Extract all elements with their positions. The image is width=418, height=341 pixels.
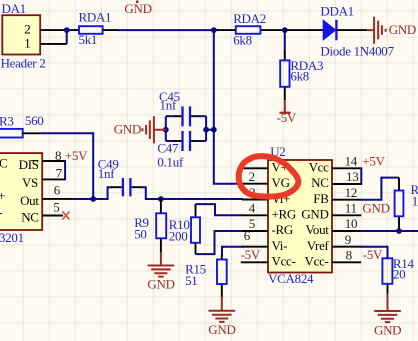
svg-text:RDA1: RDA1	[79, 9, 112, 24]
svg-text:+5V: +5V	[362, 154, 385, 169]
pin 7 of U2	[241, 261, 268, 263]
power port GND (below R14)	[374, 294, 401, 338]
svg-text:VCA824: VCA824	[268, 271, 314, 286]
resistor R13 (feedback, clipped labels)	[395, 178, 418, 231]
pin 13 of U2	[332, 183, 361, 185]
resistor R9 50	[134, 199, 166, 253]
wire cap right vertical	[205, 116, 207, 141]
svg-text:6: 6	[244, 228, 251, 243]
capacitor C49 1nf	[93, 156, 161, 199]
op-amp U2 VCA824	[268, 144, 332, 286]
pin 5 (NC) of U1	[42, 215, 63, 217]
svg-text:5k1: 5k1	[79, 32, 98, 47]
svg-text:C47: C47	[157, 141, 179, 156]
svg-text:-5V: -5V	[241, 247, 261, 262]
svg-text:NC: NC	[21, 209, 38, 224]
pin 4 of U2	[242, 214, 268, 216]
svg-text:11: 11	[345, 201, 357, 216]
svg-text:Vcc: Vcc	[309, 159, 330, 174]
svg-text:-5V: -5V	[277, 110, 297, 125]
power port GND (below R9)	[147, 252, 174, 292]
svg-text:VG: VG	[272, 175, 290, 190]
svg-text:GND: GND	[147, 277, 174, 292]
pin 1 of U2	[243, 167, 269, 169]
svg-text:GND: GND	[114, 122, 141, 137]
svg-text:GND: GND	[301, 206, 328, 221]
pin 9 (Vref) of U2	[332, 246, 361, 248]
svg-text:560: 560	[25, 113, 44, 128]
svg-text:Header 2: Header 2	[1, 55, 46, 70]
svg-text:Vref: Vref	[307, 238, 330, 253]
power port GND (right of diode)	[367, 17, 416, 44]
svg-text:C: C	[0, 156, 7, 171]
svg-text:1nf: 1nf	[160, 98, 177, 113]
op-amp U1 (x3201, clipped at left edge)	[0, 153, 42, 245]
wire Vref to R14	[360, 247, 388, 259]
no-ERC cross on pin 5	[63, 212, 70, 220]
pin 3 of U2	[242, 199, 268, 201]
resistor RDA3 6k8	[280, 30, 323, 100]
svg-text:DDA1: DDA1	[320, 4, 353, 19]
pin 8 of U2	[332, 261, 361, 263]
resistor R14 20	[382, 256, 414, 295]
wire to U2 pin 3	[161, 198, 243, 200]
svg-text:12: 12	[345, 185, 357, 200]
svg-text:DA1: DA1	[2, 1, 26, 16]
svg-text:-RG: -RG	[272, 222, 294, 237]
svg-text:VS: VS	[22, 175, 38, 190]
power port GND (left of caps)	[114, 116, 166, 143]
pin 1 of DA1	[40, 43, 66, 45]
svg-text:Vi-: Vi-	[272, 238, 288, 253]
resistor R15 51	[185, 247, 243, 298]
capacitor C45 1nf	[159, 89, 206, 127]
wire R10 top to U2 pin 4	[196, 204, 244, 215]
wire Out to junction	[71, 198, 93, 200]
junction caps right	[203, 127, 209, 133]
svg-text:9: 9	[345, 232, 351, 247]
junction C49/R9/pin3 net	[158, 196, 164, 202]
svg-text:Vcc-: Vcc-	[272, 253, 296, 268]
wire pin1 to pin2 net	[66, 30, 68, 44]
resistor R3 560	[0, 113, 44, 138]
junction of RDA1/RDA2/VG-vertical	[211, 27, 217, 33]
resistor RDA2 6k8	[214, 11, 285, 47]
svg-text:14: 14	[345, 154, 358, 169]
wire RDA1 to junction	[118, 29, 214, 31]
svg-text:7: 7	[56, 166, 63, 181]
svg-text:1k: 1k	[412, 194, 418, 209]
svg-text:0.1uf: 0.1uf	[157, 154, 184, 169]
pin 5 of U2	[242, 230, 268, 232]
diode DDA1 1N4007	[285, 4, 395, 59]
svg-text:+RG: +RG	[272, 206, 297, 221]
svg-text:6k8: 6k8	[233, 32, 252, 47]
wire loop pin14-pin13	[360, 167, 362, 185]
svg-text:GND: GND	[374, 322, 401, 337]
junction caps left	[163, 127, 169, 133]
power port GND (below R15)	[208, 297, 235, 337]
svg-text:Vcc-: Vcc-	[305, 253, 329, 268]
wire Vout net	[360, 230, 418, 232]
svg-text:200: 200	[169, 229, 188, 244]
svg-text:20: 20	[393, 266, 405, 281]
pin 11 of U2	[332, 214, 361, 216]
svg-text:8: 8	[346, 248, 352, 263]
svg-text:10: 10	[345, 216, 357, 231]
svg-text:GND: GND	[389, 22, 416, 37]
junction caps to VG vertical	[211, 127, 217, 133]
pin 14 of U2	[332, 167, 361, 169]
junction at DA1 pins	[64, 27, 70, 33]
resistor R10 200	[169, 204, 200, 254]
svg-text:Diode 1N4007: Diode 1N4007	[320, 43, 394, 58]
capacitor C47 0.1uf	[157, 131, 206, 169]
wire R10 bottom to U2 pin 5	[196, 231, 244, 254]
svg-text:1nf: 1nf	[98, 166, 115, 181]
pin 7 of U1	[42, 178, 65, 180]
svg-text:8: 8	[55, 148, 61, 163]
connector DA1 (Header 2)	[1, 1, 46, 70]
svg-text:NC: NC	[311, 175, 328, 190]
svg-text:+5V: +5V	[65, 148, 88, 163]
svg-text:R3: R3	[0, 113, 14, 128]
wire VG vertical (RDA junction down to U2 pin 2)	[214, 30, 243, 184]
svg-text:GND: GND	[208, 322, 235, 337]
svg-text:DIS: DIS	[19, 157, 39, 172]
pin 6 (Out) of U1	[42, 198, 72, 200]
svg-text:4: 4	[249, 201, 256, 216]
pin 2 of DA1	[40, 29, 66, 31]
svg-text:2: 2	[24, 22, 30, 37]
svg-text:5: 5	[53, 199, 59, 214]
svg-text:RDA2: RDA2	[233, 11, 266, 26]
svg-text:1: 1	[24, 35, 30, 50]
pin 12 (FB) of U2	[332, 199, 361, 201]
svg-text:GND: GND	[124, 1, 151, 16]
wire DA1 to RDA1	[67, 29, 72, 31]
pin 8 of U1	[42, 160, 65, 162]
pin 2 (VG) of U2	[242, 183, 268, 185]
annotation red circle around pin 2 VG	[239, 156, 299, 197]
power port -5V (below RDA3)	[277, 100, 297, 125]
svg-text:6: 6	[54, 182, 61, 197]
svg-text:13: 13	[346, 169, 358, 184]
svg-text:-: -	[0, 205, 2, 220]
svg-text:2: 2	[249, 169, 255, 184]
resistor RDA1 5k1	[71, 9, 118, 46]
svg-text:GND: GND	[362, 201, 389, 216]
svg-text:50: 50	[134, 226, 146, 241]
wire FB to R13	[360, 178, 399, 200]
svg-text:-5V: -5V	[363, 247, 383, 262]
svg-text:Vout: Vout	[305, 222, 329, 237]
power port GND (top)	[124, 0, 151, 16]
svg-text:3201: 3201	[0, 230, 24, 245]
pin 10 (Vout) of U2	[332, 230, 361, 232]
svg-text:6k8: 6k8	[290, 68, 309, 83]
svg-text:+: +	[0, 188, 5, 203]
svg-text:Out: Out	[20, 193, 39, 208]
wire caps to VG vertical	[206, 129, 214, 131]
wire loop pin8-pin7	[64, 160, 66, 180]
junction Out/R3/C49	[90, 196, 96, 202]
junction R13/Vout	[396, 228, 402, 234]
wire cap left vertical	[165, 116, 167, 141]
svg-text:51: 51	[185, 273, 197, 288]
wire R3 to Out junction	[41, 133, 93, 199]
svg-text:FB: FB	[313, 191, 329, 206]
pin 6 of U2	[242, 246, 268, 248]
junction RDA2/RDA3/diode	[282, 27, 288, 33]
